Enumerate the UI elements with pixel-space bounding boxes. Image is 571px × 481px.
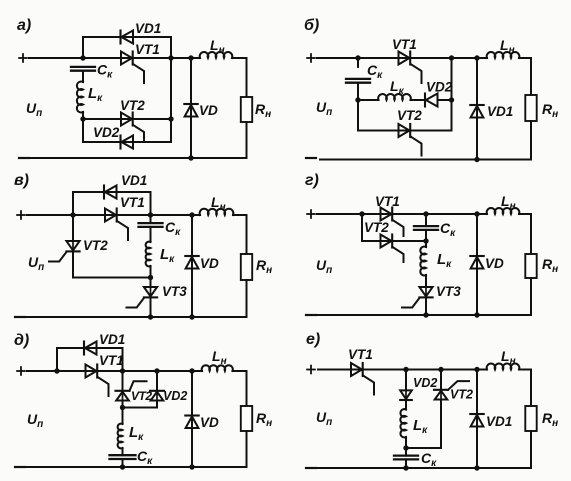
wire node to VT3 (v)	[150, 278, 152, 288]
node D6 junction (d)	[189, 368, 194, 373]
wire VT2 to node (e)	[406, 447, 441, 449]
diode VD2 (a)	[121, 136, 134, 149]
svg-text:VD2: VD2	[413, 376, 437, 390]
thyristor VT1 (b)	[399, 52, 422, 84]
wire right edge bottom (e)	[530, 431, 532, 468]
wire coil to VT3 (g)	[425, 275, 427, 287]
svg-text:VD: VD	[485, 256, 504, 271]
node E4 junction (e)	[438, 367, 443, 372]
svg-text:Uп: Uп	[316, 409, 332, 428]
wire - rail (v)	[26, 316, 247, 318]
svg-text:Lк: Lк	[160, 246, 175, 265]
node V4 junction (v)	[148, 314, 153, 319]
node B2 junction (b)	[355, 97, 360, 102]
wire cap to VT2 branch (b)	[357, 83, 359, 131]
wire VD branch (v)	[191, 215, 193, 317]
diode VD2 (d)	[150, 391, 164, 401]
inductor Lн (a)	[200, 52, 233, 58]
inductor Lк (b)	[378, 94, 411, 100]
svg-text:VD2: VD2	[163, 389, 187, 403]
svg-text:Rн: Rн	[256, 410, 272, 429]
node V5 junction (v)	[189, 212, 194, 217]
node E3 junction (e)	[403, 465, 408, 470]
svg-text:Rн: Rн	[542, 101, 558, 120]
wire right edge top (e)	[530, 370, 532, 407]
svg-text:Cк: Cк	[440, 220, 456, 239]
diode VD (v)	[185, 256, 198, 269]
diode VD (a)	[184, 104, 197, 117]
wire rail to cap (b)	[357, 58, 359, 67]
wire + rail right of coil (g)	[519, 213, 531, 215]
wire + rail right of coil (v)	[233, 214, 247, 216]
inductor Lн (e)	[487, 364, 520, 370]
thyristor VT2 (d)	[116, 381, 147, 400]
wire right edge top (a)	[246, 58, 248, 97]
inductor Lн (v)	[200, 209, 234, 215]
thyristor VT2 (a)	[121, 113, 144, 141]
wire VD2 to right leg (b)	[438, 99, 452, 101]
wire VD2 branch (a)	[83, 141, 171, 143]
wire VD branch (a)	[190, 58, 192, 158]
plus terminal (b)	[307, 54, 315, 62]
svg-text:VD: VD	[199, 103, 218, 118]
resistor Rн (e)	[525, 406, 536, 431]
wire + rail right of coil (a)	[232, 57, 247, 59]
svg-text:Rн: Rн	[256, 257, 272, 276]
svg-text:VD2: VD2	[93, 125, 120, 140]
wire node to cap (e)	[405, 448, 407, 456]
wire + rail right of coil (b)	[519, 57, 531, 59]
wire cap to - rail (d)	[122, 459, 124, 467]
svg-text:VD: VD	[200, 256, 219, 271]
plus terminal (v)	[17, 211, 25, 219]
inductor Lн (d)	[202, 365, 233, 371]
node B1 junction (b)	[355, 55, 360, 60]
svg-text:VT2: VT2	[450, 388, 473, 402]
svg-text:Rн: Rн	[542, 256, 558, 275]
svg-text:VD1: VD1	[121, 173, 147, 188]
node D2 junction (d)	[120, 368, 125, 373]
wire cap to - rail (e)	[405, 459, 407, 468]
wire + rail (v)	[27, 214, 200, 216]
diode VD1 (d)	[84, 342, 97, 355]
thyristor VT1 (d)	[86, 365, 109, 397]
node A4 junction (a)	[168, 116, 173, 121]
thyristor VT1 (g)	[381, 208, 404, 237]
wire right edge top (d)	[246, 371, 248, 406]
node A5 junction (a)	[188, 55, 193, 60]
node E2 junction (e)	[403, 445, 408, 450]
wire - rail (b)	[320, 159, 531, 161]
svg-text:Rн: Rн	[255, 101, 271, 120]
resistor Rн (b)	[525, 95, 536, 121]
svg-text:а): а)	[17, 17, 31, 34]
plus terminal (a)	[19, 54, 27, 62]
thyristor VT2 (g)	[381, 235, 404, 263]
svg-text:VD1: VD1	[135, 21, 161, 36]
svg-text:Lн: Lн	[212, 348, 227, 367]
wire + rail right of coil (e)	[519, 369, 531, 371]
svg-text:Uп: Uп	[28, 254, 44, 273]
node V2 junction (v)	[148, 212, 153, 217]
node B4 junction (b)	[449, 97, 454, 102]
minus terminal (b)	[306, 157, 316, 159]
node A1 junction (a)	[80, 55, 85, 60]
node G4 junction (g)	[423, 312, 428, 317]
wire left down-leg (a)	[82, 119, 84, 142]
wire VT2 branch (a)	[83, 118, 171, 120]
svg-text:Lк: Lк	[88, 85, 103, 104]
inductor Lн (g)	[487, 208, 520, 214]
thyristor VT2 (v)	[49, 241, 80, 262]
plus terminal (g)	[307, 210, 315, 218]
svg-text:VT1: VT1	[135, 42, 160, 57]
node D4 junction (d)	[120, 405, 125, 410]
wire coil to VD2 (b)	[411, 99, 426, 101]
node D1 junction (d)	[54, 368, 59, 373]
capacitor Cк (a)	[71, 67, 95, 71]
wire VT2 leg upper (v)	[72, 215, 74, 241]
wire VD2 to bottom wire (d)	[156, 401, 158, 408]
wire VT2 leg lower (v)	[72, 252, 74, 278]
svg-text:Rн: Rн	[542, 410, 558, 429]
svg-text:VD2: VD2	[426, 80, 453, 95]
minus terminal (a)	[19, 157, 29, 159]
wire rail to VT2 (d)	[122, 371, 124, 391]
svg-text:в): в)	[14, 172, 29, 189]
wire VT2 to node (v)	[73, 277, 151, 279]
capacitor Cк (e)	[394, 456, 418, 460]
node G1 junction (g)	[359, 211, 364, 216]
wire VD branch (d)	[191, 371, 193, 467]
svg-text:Lк: Lк	[413, 417, 428, 436]
svg-text:VT2: VT2	[364, 220, 389, 235]
wire + rail right of coil (d)	[233, 370, 247, 372]
node G6 junction (g)	[474, 312, 479, 317]
svg-text:VT1: VT1	[120, 195, 145, 210]
svg-text:Cк: Cк	[165, 219, 181, 238]
svg-text:Cк: Cк	[421, 450, 437, 469]
svg-text:VT1: VT1	[392, 37, 417, 52]
minus terminal (d)	[15, 466, 25, 468]
svg-text:Cк: Cк	[137, 448, 153, 467]
wire VT3 to - rail (g)	[425, 298, 427, 315]
node B6 junction (b)	[474, 157, 479, 162]
minus terminal (e)	[306, 467, 316, 469]
svg-text:VT2: VT2	[120, 98, 145, 113]
wire right edge bottom (d)	[246, 431, 248, 467]
wire VD1 branch (d)	[57, 348, 123, 371]
svg-text:VT1: VT1	[99, 353, 124, 368]
svg-text:Uп: Uп	[316, 257, 332, 276]
wire right edge top (v)	[246, 215, 248, 254]
resistor Rн (d)	[241, 406, 252, 431]
node G5 junction (g)	[474, 211, 479, 216]
wire coil to node (v)	[150, 266, 152, 278]
svg-text:VD: VD	[200, 415, 219, 430]
minus terminal (v)	[15, 316, 25, 318]
node E5 junction (e)	[474, 367, 479, 372]
diode VD1 (a)	[121, 31, 134, 44]
thyristor VT1 (e)	[351, 363, 374, 395]
svg-text:VT3: VT3	[436, 284, 461, 299]
wire - rail (d)	[26, 466, 247, 468]
diode VD (g)	[470, 256, 483, 269]
wire right edge top (g)	[530, 214, 532, 254]
node D7 junction (d)	[189, 464, 194, 469]
wire Lк to VD2 (b)	[358, 99, 379, 101]
svg-text:VT2: VT2	[397, 108, 422, 123]
diode VD (d)	[185, 416, 198, 429]
wire right box edge (a)	[170, 37, 172, 142]
diode VD1 (v)	[104, 186, 117, 199]
capacitor Cк (d)	[110, 455, 136, 459]
wire VD branch (g)	[476, 214, 478, 315]
thyristor VT1 (a)	[121, 52, 144, 84]
diode VD2 (e)	[400, 390, 412, 400]
inductor Lк (v)	[146, 242, 151, 267]
wire VD1 branch (v)	[73, 192, 151, 215]
wire cap to node (g)	[425, 230, 427, 241]
wire VT3 to - rail (v)	[150, 298, 152, 317]
wire VT2 branch (g)	[362, 240, 426, 242]
resistor Rн (g)	[525, 254, 536, 278]
wire VD1 branch (e)	[476, 370, 478, 469]
node V3 junction (v)	[148, 275, 153, 280]
diode VD1 (e)	[470, 414, 483, 427]
wire VT2 to bottom wire (d)	[122, 401, 124, 408]
inductor Lк (a)	[77, 82, 83, 113]
wire + rail (e)	[318, 369, 487, 371]
wire coil to node (a)	[82, 112, 84, 119]
wire node to coil (g)	[425, 241, 427, 247]
diode VD1 (b)	[470, 105, 483, 118]
plus terminal (e)	[307, 366, 315, 374]
wire rail to cap (g)	[425, 214, 427, 226]
wire pair bottom (d)	[123, 407, 158, 409]
svg-text:Lк: Lк	[437, 251, 452, 270]
node B5 junction (b)	[474, 55, 479, 60]
node A6 junction (a)	[188, 155, 193, 160]
wire right box edge (b)	[451, 58, 453, 131]
inductor Lк (g)	[420, 247, 426, 276]
wire right edge bottom (v)	[246, 280, 248, 317]
svg-text:VT2: VT2	[83, 238, 108, 253]
node E6 junction (e)	[474, 465, 479, 470]
svg-text:Uп: Uп	[316, 99, 332, 118]
wire coil to node (e)	[405, 437, 407, 448]
svg-text:VD1: VD1	[99, 332, 125, 347]
thyristor VT3 (g)	[402, 287, 433, 308]
resistor Rн (v)	[241, 254, 252, 280]
node B3 junction (b)	[449, 55, 454, 60]
capacitor Cк (g)	[414, 226, 438, 230]
capacitor Cк (b)	[346, 79, 370, 83]
thyristor VT2 (e)	[434, 381, 469, 399]
node D3 junction (d)	[154, 368, 159, 373]
wire rail to VD2 (d)	[156, 371, 158, 391]
node V6 junction (v)	[189, 314, 194, 319]
node G3 junction (g)	[423, 238, 428, 243]
svg-text:VD1: VD1	[486, 414, 512, 429]
wire VD1 branch (b)	[476, 58, 478, 160]
svg-text:VD1: VD1	[487, 104, 513, 119]
svg-text:Lк: Lк	[129, 424, 144, 443]
node V1 junction (v)	[70, 212, 75, 217]
diode VD2 (b)	[425, 94, 438, 107]
svg-text:VT1: VT1	[375, 194, 400, 209]
wire right edge top (b)	[530, 58, 532, 95]
resistor Rн (a)	[241, 97, 252, 122]
thyristor VT2 (b)	[399, 124, 422, 156]
wire - rail (a)	[31, 157, 247, 159]
wire VT2 leg (g)	[361, 214, 363, 241]
node A2 junction (a)	[80, 116, 85, 121]
wire cap to coil (a)	[82, 71, 84, 82]
node A3 junction (a)	[168, 55, 173, 60]
capacitor Cк (v)	[139, 223, 163, 227]
svg-text:е): е)	[306, 331, 320, 348]
minus terminal (g)	[306, 314, 316, 316]
node D5 junction (d)	[120, 464, 125, 469]
wire + rail (d)	[27, 370, 202, 372]
wire VD1 branch (a)	[83, 37, 171, 58]
wire VT2 branch (b)	[358, 130, 452, 132]
inductor Lн (b)	[487, 52, 520, 58]
thyristor VT3 (v)	[127, 287, 158, 308]
inductor Lк (e)	[400, 409, 406, 437]
svg-text:VT1: VT1	[348, 347, 373, 362]
thyristor VT1 (v)	[105, 209, 128, 241]
svg-text:г): г)	[305, 172, 319, 189]
node G2 junction (g)	[423, 211, 428, 216]
wire VT2 down-leg (e)	[440, 400, 442, 449]
wire right edge bottom (g)	[530, 278, 532, 315]
svg-text:Uп: Uп	[27, 411, 43, 430]
svg-text:Cк: Cк	[97, 62, 113, 81]
wire rail to cap (v)	[150, 215, 152, 221]
wire + rail (g)	[317, 213, 487, 215]
wire right edge bottom (b)	[530, 121, 532, 160]
wire + rail (b)	[317, 57, 487, 59]
svg-text:VT3: VT3	[162, 284, 187, 299]
wire + rail (a)	[29, 57, 200, 59]
wire right edge bottom (a)	[246, 122, 248, 158]
wire VD2 to coil (e)	[405, 400, 407, 410]
plus terminal (d)	[17, 367, 25, 375]
wire - rail (g)	[318, 314, 531, 316]
svg-text:д): д)	[14, 332, 29, 349]
svg-text:б): б)	[304, 17, 319, 34]
inductor Lк (d)	[118, 424, 123, 449]
wire coil to cap (d)	[122, 448, 124, 455]
node E1 junction (e)	[403, 367, 408, 372]
wire cap to coil (v)	[150, 227, 152, 242]
wire rail to VD2 (e)	[405, 370, 407, 391]
wire rail to VT2 (e)	[440, 370, 442, 390]
wire - rail (e)	[318, 467, 531, 469]
svg-text:Uп: Uп	[26, 100, 42, 119]
wire to coil (d)	[122, 408, 124, 425]
